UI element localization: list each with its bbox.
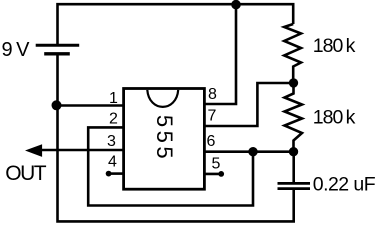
svg-text:OUT: OUT <box>5 162 47 185</box>
svg-text:5: 5 <box>212 156 221 173</box>
svg-text:3: 3 <box>107 133 116 150</box>
svg-text:1: 1 <box>109 90 118 107</box>
svg-text:555: 555 <box>152 115 177 162</box>
svg-text:0.22 uF: 0.22 uF <box>313 174 375 196</box>
svg-text:4: 4 <box>108 154 117 171</box>
svg-text:7: 7 <box>208 108 217 125</box>
svg-text:8: 8 <box>208 86 217 103</box>
svg-text:180k: 180k <box>313 35 356 57</box>
svg-text:180k: 180k <box>313 107 356 129</box>
svg-text:6: 6 <box>207 133 216 150</box>
svg-text:2: 2 <box>109 111 118 128</box>
svg-text:9 V: 9 V <box>2 39 31 61</box>
